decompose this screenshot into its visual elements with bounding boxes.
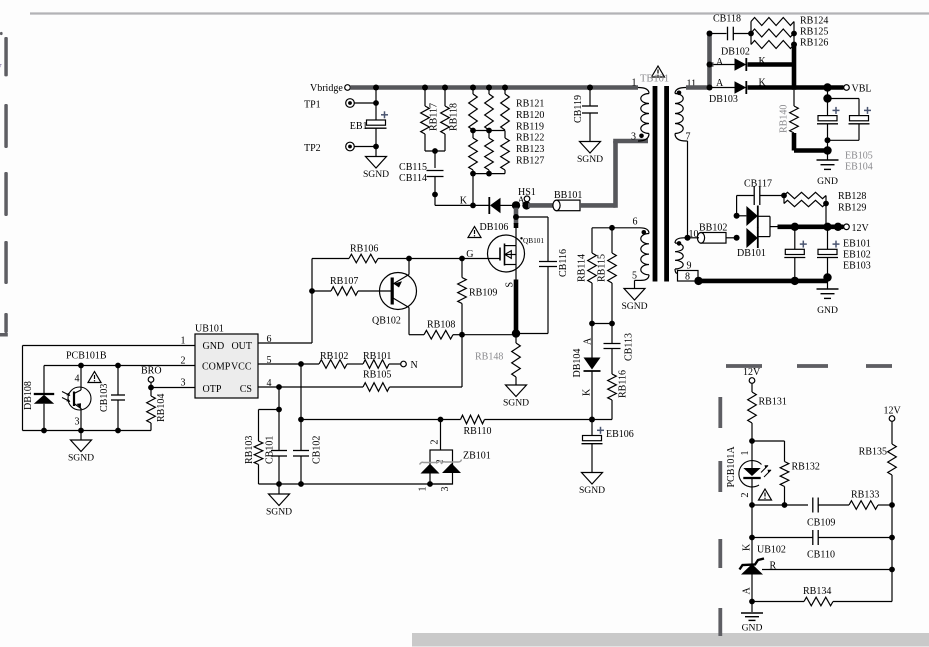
svg-text:2: 2 xyxy=(430,440,441,445)
svg-text:CB110: CB110 xyxy=(807,550,835,561)
svg-text:RB148: RB148 xyxy=(475,352,503,363)
svg-text:SGND: SGND xyxy=(503,398,529,409)
svg-text:12V: 12V xyxy=(743,367,761,378)
wire: BB101 to transformer pin 3 (thick) xyxy=(580,141,648,208)
svg-text:RB134: RB134 xyxy=(803,586,831,597)
resistor RB103 xyxy=(244,436,263,484)
wire: opto top rail (COMP net) xyxy=(44,363,121,369)
svg-text:RB114: RB114 xyxy=(577,254,588,282)
diode DB104 xyxy=(572,324,601,420)
capacitor CB109 xyxy=(807,498,849,529)
svg-text:3: 3 xyxy=(631,132,636,143)
svg-text:RB101: RB101 xyxy=(363,351,391,362)
transistor QB102 (PNP) xyxy=(358,259,417,335)
ground GND (VBL section) xyxy=(817,151,839,188)
svg-text:3: 3 xyxy=(75,417,80,428)
svg-text:CB102: CB102 xyxy=(312,436,323,464)
svg-text:RB123: RB123 xyxy=(516,144,544,155)
svg-text:RB131: RB131 xyxy=(759,397,787,408)
svg-text:RB132: RB132 xyxy=(792,462,820,473)
svg-text:EB101: EB101 xyxy=(843,239,871,250)
svg-text:6: 6 xyxy=(633,217,638,228)
node Vbridge (terminal) xyxy=(310,83,350,94)
svg-text:SGND: SGND xyxy=(621,301,647,312)
svg-text:DB108: DB108 xyxy=(23,381,34,410)
op-amp U2: shunt regulator UB102 xyxy=(740,543,893,595)
svg-text:DB102: DB102 xyxy=(721,47,750,58)
resistor RB119 xyxy=(501,88,510,131)
wire: drain node (HS1 to MOSFET, gray thick) xyxy=(513,208,519,246)
ground SGND (EB106) xyxy=(579,473,605,497)
svg-text:CB119: CB119 xyxy=(573,95,584,123)
wire: pin5 VCC stub xyxy=(258,361,319,367)
svg-text:1: 1 xyxy=(740,451,751,456)
capacitor CB117 xyxy=(737,179,784,216)
wire: CS filter branch xyxy=(259,387,282,441)
diode ZB101 (dual zener) xyxy=(418,420,491,492)
wire: aux winding top rail xyxy=(592,225,640,231)
wire: right rail xyxy=(889,505,895,602)
svg-text:EB106: EB106 xyxy=(606,429,634,440)
svg-text:RB129: RB129 xyxy=(838,203,866,214)
svg-text:RB104: RB104 xyxy=(156,394,167,422)
pin 8 box xyxy=(678,271,699,283)
svg-text:CB101: CB101 xyxy=(265,436,276,464)
wire: left rail (cathode) xyxy=(749,505,755,612)
wire TP2 to branch xyxy=(354,144,379,150)
resistor RB133 xyxy=(849,490,895,510)
resistor RB125 xyxy=(748,27,828,38)
node HS1 (terminal) xyxy=(518,187,536,207)
op-amp U1: PWM controller UB101 xyxy=(181,324,272,399)
svg-text:N: N xyxy=(411,360,418,371)
node BRO (terminal) xyxy=(141,366,162,391)
svg-text:BB101: BB101 xyxy=(554,190,582,201)
svg-text:QB101: QB101 xyxy=(523,236,544,245)
resistor RB102 xyxy=(319,351,363,368)
svg-text:RB107: RB107 xyxy=(330,276,358,287)
resistor RB109 xyxy=(458,259,498,338)
svg-text:EB102: EB102 xyxy=(843,250,871,261)
svg-text:OTP: OTP xyxy=(203,384,222,395)
isolation boundary (dashed, bottom-right box) xyxy=(718,364,892,636)
resistor RB134 xyxy=(752,586,892,606)
svg-text:RB121: RB121 xyxy=(516,99,544,110)
ferrite bead BB101 xyxy=(553,190,582,211)
test point TP2 xyxy=(304,142,354,154)
capacitor EB106 (polarized) xyxy=(582,417,634,473)
dual diode DB101 (common cathode) xyxy=(734,206,778,260)
svg-text:Vbridge: Vbridge xyxy=(310,83,343,94)
resistor RB129 xyxy=(784,196,866,227)
resistor RB132 xyxy=(780,462,820,508)
resistor RB117 xyxy=(421,88,440,152)
optocoupler PCB101B xyxy=(66,351,107,362)
svg-text:2: 2 xyxy=(740,493,751,498)
svg-text:RB108: RB108 xyxy=(427,320,455,331)
svg-text:EB1: EB1 xyxy=(350,121,368,132)
wire: resistor bank middle rail xyxy=(470,128,505,134)
svg-text:12V: 12V xyxy=(884,406,902,417)
wire: snubber to DB102 cathode (thick) xyxy=(791,42,797,90)
wire: pin1 GND net xyxy=(23,346,196,431)
svg-text:GND: GND xyxy=(742,623,763,634)
svg-text:PCB101B: PCB101B xyxy=(66,351,107,362)
node 12V (terminal, right) xyxy=(884,406,902,422)
svg-text:GND: GND xyxy=(817,176,838,187)
wire TP1 to bus branch xyxy=(354,100,379,106)
diode PCB101A (opto LED side) xyxy=(726,441,771,505)
svg-text:CB113: CB113 xyxy=(624,333,635,361)
node N (terminal) xyxy=(401,360,418,371)
svg-text:VBL: VBL xyxy=(852,84,872,95)
capacitor CB115/CB114 xyxy=(399,151,443,205)
resistor RB115 xyxy=(597,228,617,283)
capacitor CB110 xyxy=(752,530,892,561)
wire: divider row xyxy=(749,502,808,508)
svg-text:UB101: UB101 xyxy=(195,324,224,335)
resistor RB124 xyxy=(751,16,828,45)
svg-text:RB126: RB126 xyxy=(800,38,828,49)
resistor RB135 xyxy=(859,421,897,505)
wire: secondary return rail (thick) xyxy=(694,273,831,285)
isolation boundary (dashed, left edge) xyxy=(0,32,8,337)
capacitor EB1 (polarized) xyxy=(350,88,388,147)
wire: Vbridge bus (thick) xyxy=(350,85,638,90)
svg-text:ZB101: ZB101 xyxy=(463,451,491,462)
diode DB106 xyxy=(480,197,517,233)
resistor RB120 xyxy=(485,88,494,131)
wire: MOSFET source bar (thick) xyxy=(512,265,520,338)
diode DB108 (opto LED) xyxy=(23,366,54,431)
warning symbol (near DB106) xyxy=(468,227,481,238)
wire: CS net vertical xyxy=(461,335,463,387)
svg-text:K: K xyxy=(460,196,468,207)
svg-text:RB103: RB103 xyxy=(244,436,255,464)
warning symbol (PCB101B) xyxy=(88,372,101,383)
svg-text:4: 4 xyxy=(75,374,80,385)
svg-text:1: 1 xyxy=(181,336,186,347)
resistor RB116 xyxy=(592,370,629,419)
svg-text:EB104: EB104 xyxy=(845,162,873,173)
wire: anode node to BB101 (thick) xyxy=(528,203,555,208)
svg-text:BRO: BRO xyxy=(141,366,162,377)
capacitor EB104 (polarized) xyxy=(828,99,873,173)
svg-text:DB106: DB106 xyxy=(480,222,509,233)
warning symbol (above TB101) xyxy=(652,66,665,77)
wire: 12V rail (thick) xyxy=(778,223,844,231)
wire: VCC branch vertical xyxy=(298,364,304,422)
svg-text:K: K xyxy=(581,388,592,396)
transformer TB101 xyxy=(631,74,699,282)
svg-text:TP2: TP2 xyxy=(304,143,321,154)
resistor RB131 xyxy=(748,383,787,444)
resistor RB101 xyxy=(363,351,401,368)
capacitor CB103 xyxy=(99,366,125,431)
svg-text:EB103: EB103 xyxy=(843,261,871,272)
svg-text:1: 1 xyxy=(418,487,429,492)
svg-text:RB128: RB128 xyxy=(838,191,866,202)
ferrite bead BB102 xyxy=(684,223,737,244)
wire: pin3 OTP stub xyxy=(151,387,195,389)
capacitor CB102 xyxy=(293,420,323,485)
svg-text:RB127: RB127 xyxy=(516,156,544,167)
wire: pin4 CS row xyxy=(258,384,363,390)
svg-text:DB101: DB101 xyxy=(737,248,766,259)
svg-text:RB106: RB106 xyxy=(350,244,378,255)
wire: pin6 OUT stub xyxy=(258,342,312,344)
capacitor CB113 xyxy=(604,324,635,375)
svg-text:DB104: DB104 xyxy=(572,349,583,378)
svg-text:GND: GND xyxy=(203,341,225,352)
svg-text:TP1: TP1 xyxy=(304,100,321,111)
node VBL (terminal) xyxy=(844,84,872,95)
wire: opto bottom rail (SGND) xyxy=(23,428,152,434)
svg-text:GND: GND xyxy=(817,305,838,316)
svg-text:CB115: CB115 xyxy=(399,162,427,173)
svg-text:SGND: SGND xyxy=(579,485,605,496)
ground SGND (RB148) xyxy=(503,385,529,409)
wire: gate drive rail xyxy=(378,256,465,262)
svg-text:CB117: CB117 xyxy=(744,179,772,190)
resistor RB107 xyxy=(312,276,358,295)
svg-text:SGND: SGND xyxy=(68,453,94,464)
resistor RB118 xyxy=(441,88,460,152)
wire: OUT net vertical xyxy=(309,259,315,344)
resistor RB148 xyxy=(475,336,520,386)
svg-text:SGND: SGND xyxy=(577,154,603,165)
svg-text:RB140: RB140 xyxy=(779,105,790,133)
ground GND (PCB101A) xyxy=(741,613,763,634)
svg-text:BB102: BB102 xyxy=(699,223,727,234)
transistor (opto phototransistor) xyxy=(62,366,91,431)
ground SGND (aux winding pin 5) xyxy=(621,280,647,312)
resistor RB105 xyxy=(363,370,462,392)
resistor RB108 xyxy=(409,320,462,340)
transistor QB101 (N-MOSFET) xyxy=(462,235,544,288)
svg-text:QB102: QB102 xyxy=(372,316,401,327)
wire: transformer pin 11 rail (thick gray) xyxy=(686,31,714,91)
wire RB117/RB118 bottom join xyxy=(425,148,445,154)
wire: K node horizontal (CB114 to DB106) xyxy=(435,196,489,209)
labels RB121 RB120 RB119 RB122 RB123 RB127 xyxy=(516,99,544,167)
svg-text:RB105: RB105 xyxy=(363,370,391,381)
capacitor CB118 xyxy=(712,14,752,41)
svg-text:12V: 12V xyxy=(852,223,870,234)
diode DB102 xyxy=(714,47,795,72)
svg-text:RB117: RB117 xyxy=(429,103,440,131)
svg-text:CB116: CB116 xyxy=(558,249,569,277)
resistor RB140 xyxy=(779,90,799,133)
capacitor EB105 (polarized) xyxy=(817,90,840,151)
svg-text:CB114: CB114 xyxy=(399,173,427,184)
resistor RB114 xyxy=(577,228,597,283)
diode DB103 xyxy=(709,77,767,105)
svg-text:PCB101A: PCB101A xyxy=(726,446,737,488)
resistor RB121 xyxy=(469,88,478,131)
svg-text:COMP: COMP xyxy=(202,362,231,373)
svg-text:OUT: OUT xyxy=(231,341,252,352)
wire: pin2 COMP stub xyxy=(118,365,195,367)
svg-text:9: 9 xyxy=(687,261,692,272)
svg-text:A: A xyxy=(742,587,753,595)
svg-text:SGND: SGND xyxy=(266,507,292,518)
svg-text:RB122: RB122 xyxy=(516,133,544,144)
capacitor CB116 xyxy=(516,217,569,334)
svg-text:RB120: RB120 xyxy=(516,110,544,121)
resistor RB128 xyxy=(781,191,866,202)
svg-text:TB101: TB101 xyxy=(640,74,669,85)
svg-text:CB118: CB118 xyxy=(713,14,741,25)
node 12V (terminal, PCB101A top) xyxy=(743,367,761,383)
ground SGND (opto) xyxy=(68,431,94,464)
wire: sense node to source bar xyxy=(462,334,516,336)
svg-text:RB118: RB118 xyxy=(449,103,460,131)
ground GND (12V section) xyxy=(817,281,839,316)
wire: branch to RB132 xyxy=(752,441,785,462)
resistor RB126 xyxy=(751,22,828,49)
resistor RB123 xyxy=(485,131,494,171)
svg-text:2: 2 xyxy=(181,356,186,367)
wire: RB114/RB115 bottom rail xyxy=(589,283,615,326)
resistor RB122 xyxy=(469,131,478,171)
wire: RB140 bottom to GND (thick) xyxy=(794,133,832,155)
svg-text:RB115: RB115 xyxy=(597,254,608,282)
svg-text:UB102: UB102 xyxy=(757,545,786,556)
ground SGND (VCC filter) xyxy=(266,484,292,518)
ground SGND (below EB1) xyxy=(363,147,389,181)
svg-text:RB109: RB109 xyxy=(469,288,497,299)
svg-text:SGND: SGND xyxy=(363,169,389,180)
capacitor CB101 xyxy=(265,410,288,485)
svg-text:3: 3 xyxy=(181,378,186,389)
resistor RB110 xyxy=(461,415,593,437)
junction dots on Vbridge bus xyxy=(373,85,593,91)
svg-text:K: K xyxy=(742,543,753,551)
capacitor EB101/EB102 (polarized, left) xyxy=(784,229,807,279)
wire: VBL rail (thick) xyxy=(748,83,844,91)
wire: VCC node to ZB101/RB110 xyxy=(301,417,461,423)
svg-text:RB124: RB124 xyxy=(800,16,828,27)
node 12V (terminal) xyxy=(844,223,870,234)
capacitor EB103 (polarized, right) xyxy=(817,229,871,279)
resistor RB104 xyxy=(147,388,167,431)
wire: SGND bottom rail xyxy=(259,481,453,487)
svg-text:CB103: CB103 xyxy=(99,384,110,412)
svg-text:RB116: RB116 xyxy=(618,370,629,398)
ground SGND (below CB119) xyxy=(577,142,603,166)
svg-text:RB135: RB135 xyxy=(859,447,887,458)
capacitor CB119 xyxy=(573,88,598,142)
svg-text:VCC: VCC xyxy=(231,362,252,373)
svg-text:A: A xyxy=(716,57,724,68)
wire: bank bottom to DB106 cathode node xyxy=(472,174,474,206)
warning symbol (PCB101A) xyxy=(759,489,772,500)
svg-text:CB109: CB109 xyxy=(807,518,835,529)
wire: resistor bank bottom rail xyxy=(470,170,505,177)
resistor RB106 xyxy=(312,244,378,263)
svg-text:8: 8 xyxy=(685,272,690,283)
svg-text:DB103: DB103 xyxy=(709,94,738,105)
svg-text:1: 1 xyxy=(632,78,637,89)
test point TP1 xyxy=(304,99,354,111)
svg-text:RB125: RB125 xyxy=(800,27,828,38)
svg-text:EB105: EB105 xyxy=(845,151,873,162)
svg-text:CS: CS xyxy=(240,384,252,395)
svg-text:3: 3 xyxy=(440,487,451,492)
svg-text:RB119: RB119 xyxy=(516,121,544,132)
svg-text:RB133: RB133 xyxy=(851,490,879,501)
svg-text:RB110: RB110 xyxy=(464,426,492,437)
svg-text:RB102: RB102 xyxy=(320,351,348,362)
junction dots at HS1/anode node xyxy=(512,201,531,209)
svg-text:7: 7 xyxy=(0,64,2,74)
resistor RB127 xyxy=(501,131,510,171)
